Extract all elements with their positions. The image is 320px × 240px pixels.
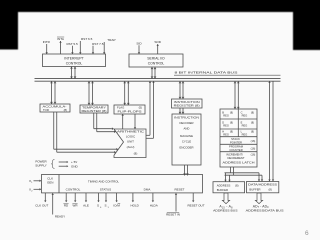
svg-text:INTERRUPT: INTERRUPT <box>64 56 83 60</box>
wire register-array-to-buffers <box>224 167 263 182</box>
wire serial-to-bus <box>151 67 157 79</box>
svg-text:ADDRESS BUS: ADDRESS BUS <box>213 209 237 213</box>
pin SID <box>136 41 142 54</box>
wire temp-register-to-ALU (upper input) <box>94 113 116 133</box>
svg-text:RST 5.5: RST 5.5 <box>66 42 78 46</box>
interrupt control block <box>43 54 106 67</box>
svg-text:(8): (8) <box>268 187 271 191</box>
svg-text:SERIAL I/O: SERIAL I/O <box>147 57 165 61</box>
node A15-A8 address bus <box>213 193 237 213</box>
pin RESET IN <box>166 193 180 217</box>
wire bus-to-flags <box>123 81 129 105</box>
svg-text:ADDRESS: ADDRESS <box>217 183 231 187</box>
svg-text:BUFFER: BUFFER <box>217 188 228 192</box>
svg-text:(8): (8) <box>134 152 138 156</box>
timing and control block <box>42 175 203 193</box>
svg-text:REG: REG <box>242 124 248 128</box>
svg-text:S: S <box>104 204 106 208</box>
svg-text:(ALU): (ALU) <box>127 145 135 149</box>
pin INTR <box>43 40 51 54</box>
pin WR <box>72 193 78 208</box>
pin INTA <box>57 37 65 54</box>
svg-text:8 BIT INTERNAL DATA BUS: 8 BIT INTERNAL DATA BUS <box>175 71 238 75</box>
svg-text:RESET: RESET <box>174 188 184 192</box>
wire bus-to-accumulator <box>50 81 56 104</box>
svg-text:DECREMENT: DECREMENT <box>227 156 244 160</box>
svg-text:HOLD: HOLD <box>131 204 140 208</box>
svg-text:DATA/ADDRESS: DATA/ADDRESS <box>248 182 277 186</box>
pin HLDA <box>150 193 158 208</box>
svg-text:CONTROL: CONTROL <box>66 188 81 192</box>
svg-text:HLDA: HLDA <box>150 204 158 208</box>
svg-text:(8): (8) <box>230 110 233 114</box>
svg-text:S: S <box>97 204 99 208</box>
svg-text:LOGIC: LOGIC <box>126 135 136 139</box>
svg-text:FLIP-FLOPS: FLIP-FLOPS <box>118 110 142 114</box>
svg-text:(16): (16) <box>251 146 256 150</box>
wire decoder-to-timing <box>183 165 189 176</box>
pin RD <box>63 193 69 208</box>
svg-text:CONTROL: CONTROL <box>66 61 83 65</box>
svg-text:INTR: INTR <box>43 40 51 44</box>
pin ALE <box>83 193 89 208</box>
black top-left block <box>0 0 18 50</box>
svg-text:(8): (8) <box>251 129 254 133</box>
svg-text:IO/M: IO/M <box>113 204 120 208</box>
serial I/O control block <box>129 54 183 67</box>
svg-text:REG: REG <box>223 124 229 128</box>
pin RST 5.5 <box>66 42 78 54</box>
svg-text:1: 1 <box>108 207 110 209</box>
wire ALU-to-bus <box>146 81 155 138</box>
svg-text:(8): (8) <box>235 184 238 188</box>
svg-text:REG: REG <box>223 114 229 118</box>
svg-text:RESET IN: RESET IN <box>166 213 180 217</box>
instruction register block <box>172 99 203 108</box>
power supply legend +5V <box>35 159 78 168</box>
svg-text:(8): (8) <box>64 108 67 112</box>
pin X1 crystal input <box>29 179 41 184</box>
svg-text:INCREMENT/: INCREMENT/ <box>226 152 243 156</box>
svg-text:1: 1 <box>31 182 33 184</box>
temporary register block <box>80 105 108 113</box>
svg-text:ARITHMETIC: ARITHMETIC <box>117 129 145 133</box>
svg-text:WR: WR <box>73 204 79 208</box>
svg-text:SID: SID <box>136 41 142 45</box>
svg-text:ADDRESS LATCH: ADDRESS LATCH <box>223 160 255 164</box>
svg-text:REGISTER (8): REGISTER (8) <box>82 109 107 113</box>
svg-text:BUFFER: BUFFER <box>249 187 260 191</box>
register array block <box>220 109 257 167</box>
svg-text:REG: REG <box>242 132 248 136</box>
pin CLK OUT <box>35 193 48 208</box>
svg-text:READY: READY <box>55 215 65 219</box>
svg-text:REG: REG <box>223 132 229 136</box>
data/address buffer block <box>247 182 279 193</box>
instruction decoder block <box>172 114 201 165</box>
svg-text:INTA: INTA <box>57 37 65 41</box>
svg-text:GEN: GEN <box>47 180 54 184</box>
wire bus-to-register-array <box>234 81 240 109</box>
wire bus-to-temp-register <box>88 81 94 105</box>
node AD7-AD0 address/data bus <box>246 193 284 213</box>
wire accumulator-to-ALU (lower input) <box>54 112 118 154</box>
wire bus-to-instruction-register <box>179 81 185 99</box>
svg-text:(8): (8) <box>230 129 233 133</box>
svg-text:REGISTER (8): REGISTER (8) <box>174 104 200 108</box>
black top-right block <box>293 0 320 50</box>
wire flags-ALU bidirectional <box>122 114 137 129</box>
pin RESET OUT <box>187 193 204 208</box>
svg-text:COUNTER: COUNTER <box>229 148 242 152</box>
svg-text:DMA: DMA <box>144 188 151 192</box>
svg-text:REG: REG <box>242 114 248 118</box>
pin READY <box>52 193 66 219</box>
wire bus-to-data-address-buffer <box>268 81 274 181</box>
svg-text:(16): (16) <box>251 139 256 143</box>
svg-text:SUPPLY: SUPPLY <box>35 164 47 168</box>
svg-text:ENCODER: ENCODER <box>180 146 194 150</box>
wire instruction-register-to-decoder <box>179 108 185 114</box>
svg-text:TIMING AND CONTROL: TIMING AND CONTROL <box>88 179 119 183</box>
svg-text:RESET OUT: RESET OUT <box>187 204 204 208</box>
pin X2 crystal input <box>29 188 41 193</box>
pin IO/M <box>113 193 120 208</box>
svg-text:TOR: TOR <box>43 108 49 112</box>
svg-text:RST 6.5: RST 6.5 <box>81 37 93 41</box>
svg-text:CLK OUT: CLK OUT <box>35 204 48 208</box>
svg-text:6: 6 <box>305 230 309 237</box>
svg-text:MACHINE: MACHINE <box>180 134 193 138</box>
pin S1 <box>104 193 109 209</box>
svg-text:STATUS: STATUS <box>100 188 111 192</box>
pin RST 7.5 <box>92 42 104 54</box>
svg-text:ADDRESS/DATA BUS: ADDRESS/DATA BUS <box>246 209 284 213</box>
svg-text:TRAP: TRAP <box>107 38 115 42</box>
pin TRAP <box>103 38 116 54</box>
svg-text:INSTRUCTION: INSTRUCTION <box>174 116 199 120</box>
svg-text:UNIT: UNIT <box>127 140 134 144</box>
address buffer block <box>213 182 245 193</box>
wire interrupt-to-bus <box>70 67 76 79</box>
8-bit internal data bus <box>35 71 281 82</box>
pin HOLD <box>131 193 140 208</box>
svg-text:AND: AND <box>184 127 190 131</box>
svg-text:(16): (16) <box>251 152 256 156</box>
svg-text:ALE: ALE <box>83 204 89 208</box>
pin S0 <box>97 193 102 209</box>
accumulator register block <box>40 104 70 112</box>
flag flip-flops block <box>114 105 145 114</box>
svg-text:GND: GND <box>71 164 79 168</box>
svg-text:CONTROL: CONTROL <box>148 62 165 66</box>
svg-text:(8): (8) <box>251 110 254 114</box>
pin SOD <box>154 40 161 54</box>
black header bar <box>0 0 320 12</box>
svg-text:RD: RD <box>64 204 69 208</box>
pin RST 6.5 <box>79 37 93 54</box>
svg-text:POINTER: POINTER <box>230 141 242 145</box>
svg-text:0: 0 <box>100 207 102 209</box>
svg-text:DECODER: DECODER <box>180 121 194 125</box>
svg-text:RST 7.5: RST 7.5 <box>92 42 104 46</box>
svg-text:SOD: SOD <box>154 40 161 44</box>
svg-text:2: 2 <box>31 191 33 193</box>
svg-text:(8): (8) <box>251 120 254 124</box>
svg-text:CYCLE: CYCLE <box>182 139 191 143</box>
ALU U1 arithmetic logic unit block <box>114 129 146 158</box>
svg-text:(8): (8) <box>230 120 233 124</box>
